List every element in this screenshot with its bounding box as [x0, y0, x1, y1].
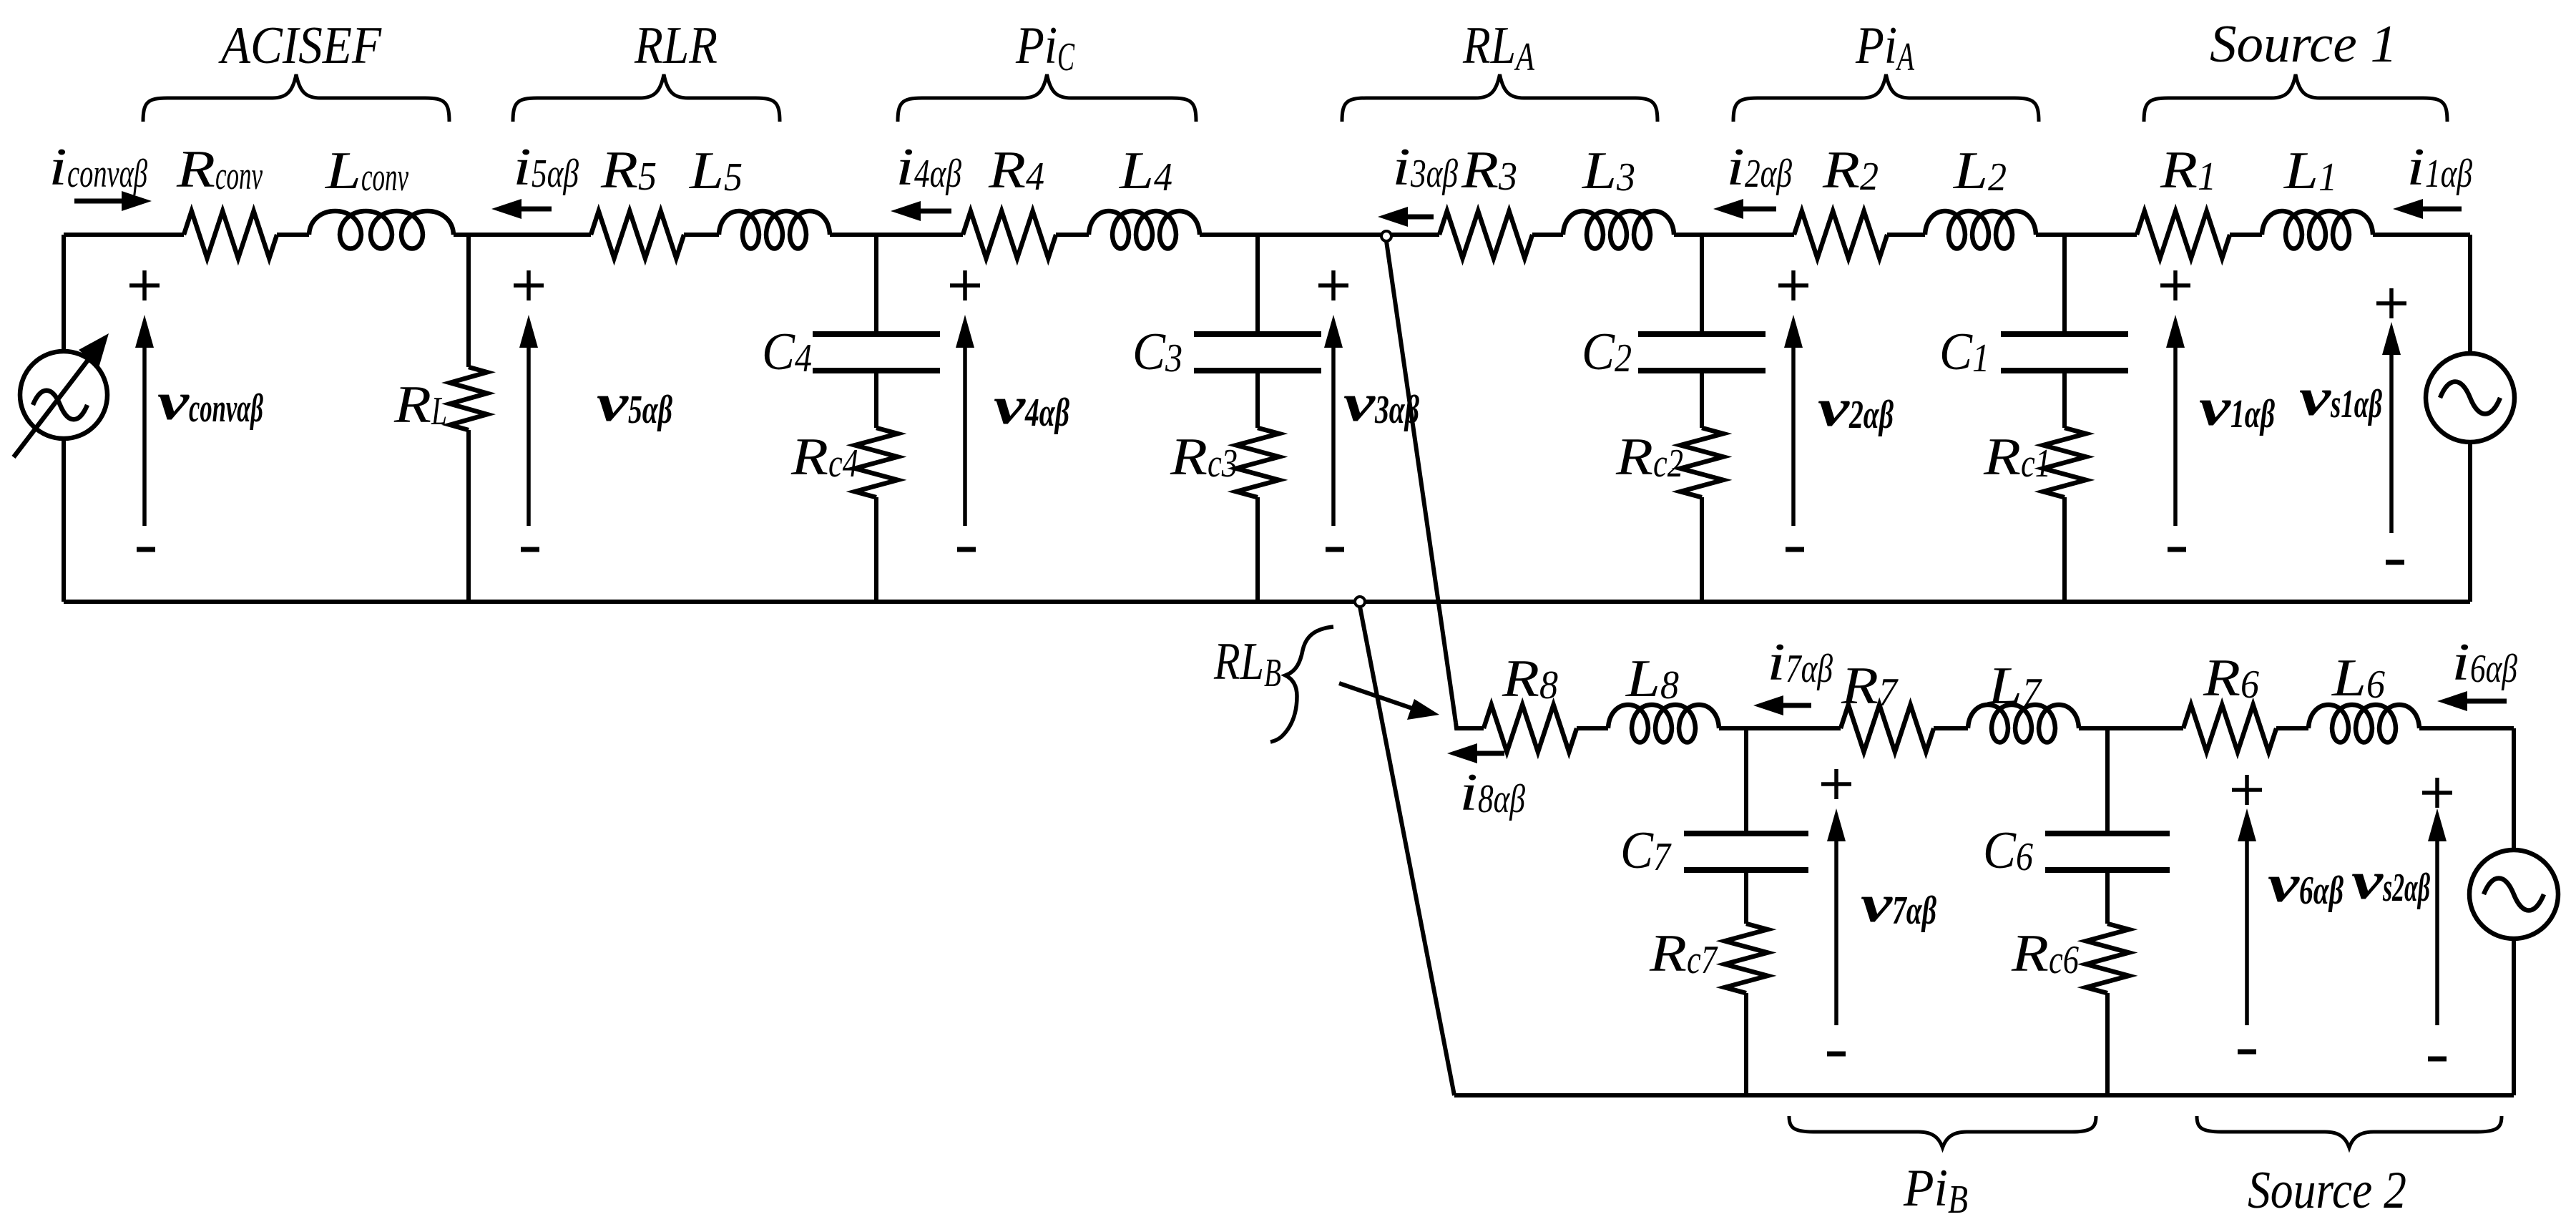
wire Rc2 bot — [1700, 497, 1704, 602]
wire top rail B — [277, 233, 309, 237]
minus sign v_convαβ minus — [137, 547, 155, 552]
plus sign v_3αβ plus — [1318, 270, 1348, 300]
wire C1 branch top — [2062, 235, 2067, 331]
wire row2 rail E — [2276, 726, 2308, 730]
current arrow i_8αβ — [1447, 743, 1504, 763]
converter arrow — [14, 333, 109, 457]
voltage arrow v_6αβ — [2238, 808, 2256, 1025]
capacitor C1 — [2001, 334, 2128, 371]
resistor R_c4 — [855, 428, 898, 497]
voltage arrow v_s1αβ — [2382, 322, 2401, 533]
plus sign v_4αβ plus — [950, 270, 980, 300]
resistor R2 — [1794, 211, 1887, 258]
voltage arrow v_1αβ — [2166, 315, 2185, 526]
wire top rail E — [830, 233, 963, 237]
wire vs1 drop bot — [2468, 442, 2472, 602]
wire C2 branch top — [1700, 235, 1704, 331]
plus sign v_2αβ plus — [1778, 270, 1808, 300]
current arrow i_5αβ — [491, 199, 552, 219]
voltage arrow v_7αβ — [1827, 808, 1846, 1025]
plus sign v_6αβ plus — [2232, 775, 2262, 805]
brace Source 1 — [2144, 74, 2447, 122]
resistor R_c3 — [1236, 428, 1279, 497]
brace RL_B — [1270, 627, 1333, 742]
wire C6-Rc6 — [2105, 873, 2110, 924]
minus sign v_s2αβ minus — [2428, 1057, 2447, 1062]
wire C3 branch top — [1255, 235, 1260, 331]
resistor R_L — [450, 367, 487, 430]
capacitor C2 — [1638, 334, 1766, 371]
wire bottom rail row2 — [1454, 1093, 2514, 1097]
resistor R6 — [2183, 705, 2276, 752]
wire Rc7 bot — [1744, 993, 1748, 1095]
brace Pi_C — [898, 74, 1196, 122]
wire left drop — [62, 235, 66, 352]
wire C7 branch top — [1744, 728, 1748, 831]
wire diagonal to row2 bottom rail — [1360, 607, 1454, 1095]
capacitor C4 — [813, 334, 940, 371]
wire row2 rail A — [1577, 726, 1608, 730]
AC source converter — [20, 351, 107, 439]
voltage arrow v_2αβ — [1784, 315, 1803, 526]
inductor L2 — [1925, 211, 2036, 249]
wire bottom rail row1 — [64, 600, 2470, 604]
svg-text:Source 2: Source 2 — [2248, 1161, 2406, 1220]
wire left drop 2 — [62, 438, 66, 602]
inductor L8 — [1608, 705, 1719, 743]
wire RL branch bot — [466, 430, 471, 602]
minus sign v_3αβ minus — [1326, 547, 1344, 552]
brace RLR — [513, 74, 780, 122]
plus sign v_7αβ plus — [1821, 769, 1851, 799]
inductor L5 — [719, 211, 830, 249]
brace RL_A — [1342, 74, 1657, 122]
wire top rail F — [1056, 233, 1089, 237]
minus sign v_5αβ minus — [521, 547, 539, 552]
resistor R5 — [591, 211, 684, 258]
svg-text:ACISEF: ACISEF — [217, 16, 381, 75]
inductor L1 — [2262, 211, 2373, 249]
voltage arrow v_convαβ — [135, 315, 154, 526]
plus sign v_convαβ plus — [129, 270, 160, 300]
svg-text:Source 1: Source 1 — [2210, 15, 2397, 74]
resistor R3 — [1439, 211, 1532, 258]
wire C1-Rc1 — [2062, 373, 2067, 428]
voltage arrow v_5αβ — [519, 315, 538, 526]
wire Rc4 bot — [874, 497, 878, 602]
wire vs2 drop bot — [2512, 939, 2516, 1095]
node A (top rail) — [1381, 231, 1391, 241]
minus sign v_4αβ minus — [957, 547, 976, 552]
current arrow i_1αβ — [2393, 199, 2462, 219]
inductor L6 — [2308, 705, 2419, 743]
wire top rail I — [1674, 233, 1794, 237]
wire C3-Rc3 — [1255, 373, 1260, 428]
wire top rail C — [454, 233, 591, 237]
wire vs1 drop top — [2468, 235, 2472, 353]
wire row2 rail D — [2079, 726, 2183, 730]
voltage arrow v_4αβ — [956, 315, 974, 526]
AC source source vs1 — [2426, 353, 2514, 442]
wire top rail D — [684, 233, 719, 237]
capacitor C6 — [2045, 833, 2170, 870]
resistor R_c6 — [2086, 924, 2129, 993]
minus sign v_6αβ minus — [2238, 1050, 2256, 1055]
plus sign v_s2αβ plus — [2422, 778, 2452, 808]
resistor R7 — [1841, 705, 1934, 752]
inductor L_conv — [309, 211, 454, 249]
wire C6 branch top — [2105, 728, 2110, 831]
inductor L3 — [1563, 211, 1674, 249]
wire top rail G — [1200, 233, 1439, 237]
node B (bottom rail) — [1355, 597, 1365, 607]
minus sign v_2αβ minus — [1786, 547, 1804, 552]
current arrow i_4αβ — [891, 201, 951, 221]
resistor R_conv — [184, 211, 277, 258]
minus sign v_7αβ minus — [1827, 1052, 1846, 1057]
wire C2-Rc2 — [1700, 373, 1704, 428]
wire C4-Rc4 — [874, 373, 878, 428]
voltage arrow v_s2αβ — [2428, 808, 2447, 1025]
current arrow i_7αβ — [1753, 695, 1811, 715]
resistor R_c2 — [1680, 428, 1723, 497]
brace ACISEF — [143, 74, 449, 122]
wire top rail J — [1887, 233, 1925, 237]
resistor R8 — [1484, 705, 1577, 752]
current arrow i_6αβ — [2437, 691, 2507, 711]
svg-text:RLR: RLR — [634, 16, 718, 75]
minus sign v_1αβ minus — [2168, 547, 2186, 552]
resistor R1 — [2137, 211, 2230, 258]
wire top rail A — [64, 233, 184, 237]
resistor R4 — [963, 211, 1056, 258]
brace Source 2 — [2197, 1116, 2502, 1148]
plus sign v_5αβ plus — [514, 270, 544, 300]
inductor L4 — [1089, 211, 1200, 249]
wire top rail K — [2036, 233, 2137, 237]
brace Pi_A — [1733, 74, 2039, 122]
minus sign v_s1αβ minus — [2386, 560, 2404, 565]
wire elbow to R8 — [1456, 723, 1484, 728]
wire top rail H — [1532, 233, 1563, 237]
current arrow i_3αβ — [1378, 207, 1434, 227]
resistor R_c7 — [1725, 924, 1768, 993]
wire C7-Rc7 — [1744, 873, 1748, 924]
wire Rc1 bot — [2062, 497, 2067, 602]
wire row2 rail B — [1719, 726, 1841, 730]
capacitor C3 — [1194, 334, 1321, 371]
plus sign v_1αβ plus — [2160, 270, 2190, 300]
wire row2 rail F — [2419, 726, 2514, 730]
wire Rc3 bot — [1255, 497, 1260, 602]
AC source source vs2 — [2469, 850, 2558, 939]
plus sign v_s1αβ plus — [2376, 288, 2406, 318]
wire top rail L — [2230, 233, 2262, 237]
wire Rc6 bot — [2105, 993, 2110, 1095]
capacitor C7 — [1684, 833, 1808, 870]
RL_B pointer arrow — [1339, 683, 1439, 720]
wire vs2 drop top — [2512, 728, 2516, 850]
current arrow i_convαβ — [74, 191, 152, 211]
brace Pi_B — [1789, 1116, 2096, 1148]
resistor R_c1 — [2043, 428, 2086, 497]
inductor L7 — [1968, 705, 2079, 743]
wire top rail M — [2373, 233, 2470, 237]
wire RL branch top — [466, 235, 471, 367]
wire row2 rail C — [1934, 726, 1968, 730]
voltage arrow v_3αβ — [1324, 315, 1343, 526]
wire diagonal to RL_B — [1386, 241, 1456, 723]
wire C4 branch top — [874, 235, 878, 331]
current arrow i_2αβ — [1713, 199, 1776, 219]
